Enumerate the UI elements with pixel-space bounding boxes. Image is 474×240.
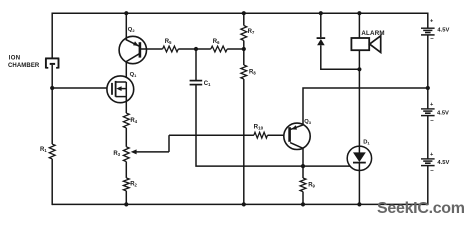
diode D2 — [317, 38, 326, 45]
wire bottom rail — [52, 203, 428, 205]
wiper arrow R3 — [131, 149, 169, 154]
svg-text:4.5V: 4.5V — [437, 28, 449, 34]
wire R9 to bottom rail — [302, 192, 304, 205]
resistor R9 — [300, 178, 306, 192]
wire R7 to node — [243, 41, 245, 50]
wire Q1 source to R4 — [125, 97, 127, 114]
wire R10 to Q3 base — [268, 134, 290, 136]
wire alarm node to D1 — [358, 69, 360, 146]
svg-text:R8: R8 — [249, 70, 256, 76]
wire node to R8 — [243, 49, 245, 65]
svg-text:ION: ION — [9, 56, 21, 62]
wire R8 to bottom rail — [243, 79, 245, 204]
wire top rail to R7 — [243, 13, 245, 25]
svg-text:R10: R10 — [254, 123, 264, 130]
transistor Q1 — [107, 76, 134, 103]
resistor R6 — [211, 46, 227, 52]
wire Q3 emitter riser — [303, 88, 428, 125]
resistor R2 — [123, 178, 129, 191]
diode D1 — [347, 146, 371, 170]
wire C1 bottom lead — [196, 85, 303, 166]
wire top rail to Q2 emitter — [125, 13, 127, 39]
wire node to R9 — [302, 166, 304, 178]
wire alarm to node — [358, 50, 360, 70]
svg-text:R3: R3 — [113, 151, 120, 157]
svg-text:Q2: Q2 — [128, 27, 136, 33]
node alarm diode junction — [357, 67, 361, 71]
svg-text:–: – — [430, 35, 434, 42]
node R8 bottom — [242, 202, 246, 206]
wire battery 1 to tap — [427, 35, 429, 88]
wire Q2 collector to Q1 drain — [125, 61, 127, 83]
transistor Q3 — [284, 123, 310, 149]
node top rail R7 — [242, 11, 246, 15]
wire gate node to Q1 — [52, 87, 112, 89]
resistor R5 — [163, 46, 179, 52]
svg-text:R6: R6 — [213, 39, 220, 45]
svg-text:R4: R4 — [130, 118, 137, 124]
wire C1 top lead — [195, 49, 197, 80]
transistor Q2 — [119, 36, 146, 63]
label ION CHAMBER — [8, 56, 40, 69]
battery B3 4.5V — [421, 152, 435, 174]
svg-text:–: – — [430, 117, 434, 124]
wire top rail to alarm — [358, 13, 360, 39]
node Q3 collector R9 junction — [301, 164, 305, 168]
wire R1 to bottom rail — [51, 159, 53, 205]
svg-text:R7: R7 — [248, 29, 255, 35]
svg-text:CHAMBER: CHAMBER — [8, 63, 40, 69]
wire chamber to gate node — [51, 65, 53, 88]
wire R6 to R7 node — [227, 48, 244, 50]
battery B2 4.5V — [421, 102, 435, 124]
wire battery 2 to battery 3 — [427, 116, 429, 159]
wire top rail to diode — [320, 13, 322, 37]
node D1 bottom — [357, 202, 361, 206]
node top rail alarm — [357, 11, 361, 15]
wire battery 3 to bottom rail — [427, 166, 429, 206]
resistor R10 — [254, 132, 268, 138]
wire R4 to R3 — [125, 128, 127, 147]
svg-text:C1: C1 — [204, 81, 211, 87]
svg-text:R1: R1 — [40, 147, 47, 153]
ion chamber — [45, 58, 59, 68]
alarm speaker — [351, 36, 380, 53]
node gate junction — [50, 86, 54, 90]
node C1 top — [194, 47, 198, 51]
svg-text:4.5V: 4.5V — [437, 110, 449, 116]
wire wiper riser — [168, 135, 170, 152]
wire Q3 collector to node — [302, 148, 304, 166]
node R9 bottom — [301, 202, 305, 206]
wire Q2 base to R5 — [140, 48, 163, 50]
svg-text:R2: R2 — [130, 181, 137, 187]
wire top rail to battery 1 — [427, 13, 429, 29]
capacitor C1 — [190, 81, 203, 85]
svg-text:R5: R5 — [165, 39, 172, 45]
resistor R8 — [241, 65, 247, 79]
svg-text:Q1: Q1 — [130, 72, 138, 78]
battery B1 4.5V — [421, 19, 435, 42]
svg-text:Q3: Q3 — [304, 119, 312, 125]
wire emitter row to D1 — [303, 165, 350, 167]
svg-text:ALARM: ALARM — [361, 30, 384, 37]
wire tap to battery 2 — [427, 88, 429, 109]
wire gate node down to R1 — [51, 88, 53, 144]
wire diode to alarm node — [321, 45, 360, 69]
wire R3 to R2 — [125, 162, 127, 178]
node R6 R7 R8 — [242, 47, 246, 51]
node top rail diode — [319, 11, 323, 15]
resistor R4 — [123, 113, 129, 128]
potentiometer R3 — [123, 147, 129, 162]
wire D1 to bottom rail — [358, 171, 360, 205]
wire left column top — [51, 13, 53, 59]
wire top rail — [52, 12, 428, 14]
node battery tap — [426, 86, 430, 90]
wire wiper to R10 — [169, 134, 254, 136]
svg-text:SeekIC.com: SeekIC.com — [377, 200, 465, 217]
svg-text:4.5V: 4.5V — [437, 160, 449, 166]
wire R5 to C1 node — [178, 48, 196, 50]
svg-text:–: – — [430, 167, 434, 174]
resistor R1 — [49, 144, 55, 159]
resistor R7 — [241, 26, 247, 41]
svg-text:D1: D1 — [363, 140, 370, 146]
node top rail Q2 — [124, 11, 128, 15]
wire R6 lead left — [196, 48, 211, 50]
node R2 bottom — [124, 202, 128, 206]
wire R2 to bottom rail — [125, 191, 127, 205]
svg-text:R9: R9 — [308, 182, 315, 188]
